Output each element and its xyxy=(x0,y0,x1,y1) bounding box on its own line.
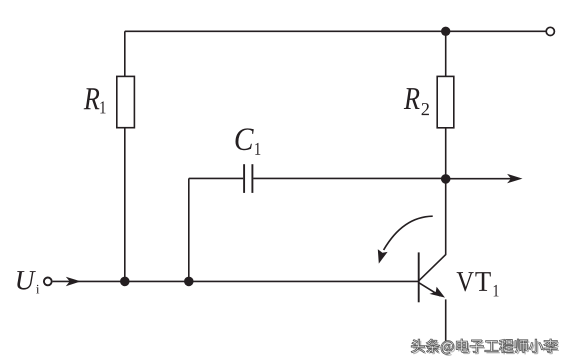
label R1 subscript xyxy=(100,101,105,113)
wire C1 right horizontal to node xyxy=(253,177,446,179)
resistor R1 xyxy=(117,76,135,127)
curved arrow arrowhead xyxy=(378,249,388,263)
wire output from node xyxy=(446,178,511,180)
label C1 letter xyxy=(236,128,254,150)
wire R1 top lead xyxy=(124,31,126,76)
label C1 subscript xyxy=(255,143,260,155)
label R2 letter xyxy=(404,88,420,109)
transistor VT1 emitter arrowhead xyxy=(430,287,446,298)
wire C1 left horizontal xyxy=(189,177,243,179)
label VT1 subscript xyxy=(494,285,499,297)
transistor VT1 base bar xyxy=(418,252,420,302)
label R1 letter xyxy=(84,88,100,109)
wire C1 left leg vertical xyxy=(188,178,190,281)
label VT1 letter V xyxy=(457,272,474,291)
watermark toutiao electronics engineer xiaoli xyxy=(411,339,559,356)
label Ui subscript xyxy=(36,285,39,294)
wire top rail xyxy=(125,30,546,32)
label Ui letter xyxy=(17,271,36,289)
wire input rail xyxy=(53,280,418,282)
arrowhead output signal xyxy=(507,174,522,183)
curved arrow feedback arc xyxy=(384,216,433,250)
capacitor C1 plates xyxy=(244,164,252,193)
node junction dot R1 / input rail xyxy=(120,277,130,287)
node junction dot collector net xyxy=(441,174,451,184)
resistor R2 xyxy=(437,76,454,127)
wire emitter down xyxy=(445,299,447,341)
wire R2 top lead xyxy=(445,31,447,76)
label VT1 letter T xyxy=(475,272,490,291)
wire R1 bottom lead down to input rail xyxy=(124,128,126,282)
transistor VT1 emitter diagonal xyxy=(419,283,440,296)
transistor VT1 base wire xyxy=(417,280,420,282)
node junction dot C1 leg / input rail xyxy=(184,277,194,287)
label R2 subscript xyxy=(422,103,429,115)
wire R2 bottom lead down to collector node xyxy=(445,128,447,255)
node junction dot top rail xyxy=(441,27,450,36)
arrowhead input signal xyxy=(66,277,81,287)
terminal input open circle xyxy=(44,278,52,286)
terminal output open circle top right xyxy=(546,27,554,35)
transistor VT1 collector diagonal xyxy=(419,254,446,280)
